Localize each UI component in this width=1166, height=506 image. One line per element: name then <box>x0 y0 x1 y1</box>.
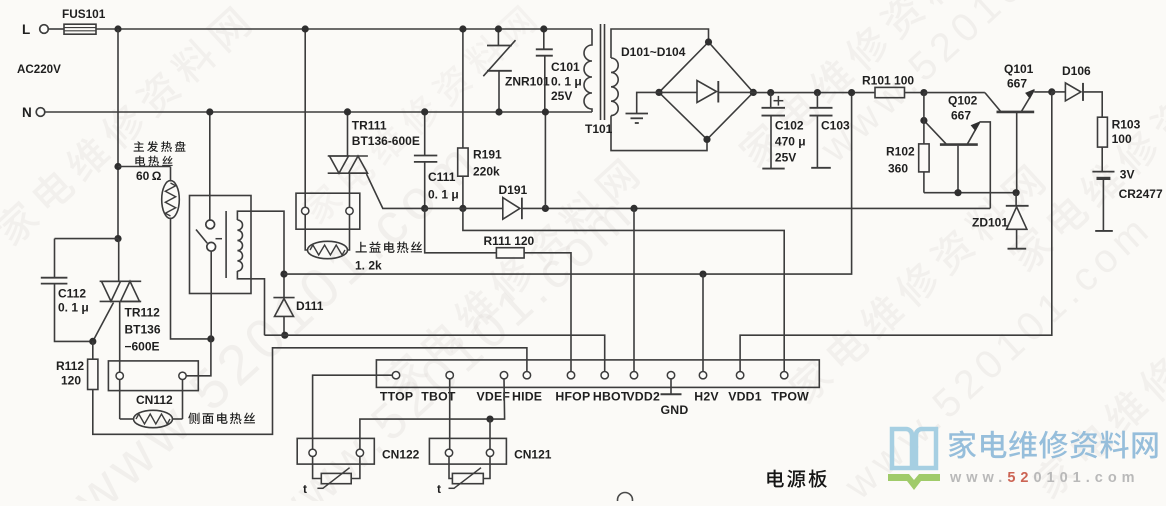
transistor Q101 <box>997 111 1035 114</box>
svg-text:www.520101.com: www.520101.com <box>949 470 1140 486</box>
fuse FUS101 <box>48 28 64 30</box>
node switch-heater junction <box>207 335 214 342</box>
svg-text:25V: 25V <box>551 89 572 103</box>
svg-text:t: t <box>303 482 307 496</box>
capacitor C111 <box>424 112 426 156</box>
bridge rectifier D101~D104 <box>659 42 753 139</box>
svg-text:FUS101: FUS101 <box>62 7 106 21</box>
wire R111 to HFOP <box>524 253 571 371</box>
svg-text:VDD1: VDD1 <box>728 390 762 404</box>
wire relay coil top lead <box>237 211 284 297</box>
wire TPOW <box>463 208 784 371</box>
svg-text:T101: T101 <box>585 122 613 136</box>
svg-text:120: 120 <box>61 374 81 388</box>
transformer T101 <box>584 29 592 112</box>
logo book icon <box>892 429 936 468</box>
capacitor C101 <box>543 29 545 49</box>
svg-text:TR111: TR111 <box>352 119 387 133</box>
svg-text:R102: R102 <box>886 145 915 159</box>
svg-text:470 μ: 470 μ <box>775 135 806 149</box>
wire L top rail <box>96 28 592 30</box>
svg-text:N: N <box>22 105 32 120</box>
label main heater 主发热盘 电热丝 60Ω <box>134 141 186 152</box>
wire DC+ to relay and H2V <box>284 93 852 275</box>
svg-text:TPOW: TPOW <box>771 390 809 404</box>
watermark <box>0 3 254 249</box>
svg-text:TTOP: TTOP <box>380 390 413 404</box>
svg-text:R112: R112 <box>56 359 84 373</box>
svg-text:C111: C111 <box>428 170 456 184</box>
svg-text:25V: 25V <box>775 151 796 165</box>
svg-text:D191: D191 <box>499 183 528 197</box>
svg-text:HIDE: HIDE <box>512 390 542 404</box>
svg-text:HFOP: HFOP <box>555 390 590 404</box>
node heater branch <box>114 163 121 170</box>
svg-text:ZNR101: ZNR101 <box>505 75 550 89</box>
wire D191 output (VDD2 line) <box>522 207 990 209</box>
TR111 gate wire <box>367 174 425 208</box>
node C102 <box>767 89 774 96</box>
svg-text:CN122: CN122 <box>382 448 420 462</box>
svg-text:C102: C102 <box>775 119 804 133</box>
svg-text:100: 100 <box>1112 132 1132 146</box>
svg-text:R111 120: R111 120 <box>484 234 535 248</box>
svg-text:BT136-600E: BT136-600E <box>352 134 420 148</box>
resistor R103 <box>1098 117 1108 147</box>
svg-text:C101: C101 <box>551 60 580 74</box>
svg-text:60 Ω: 60 Ω <box>136 169 162 183</box>
node DC+ drop <box>848 89 855 96</box>
svg-text:TBOT: TBOT <box>421 390 456 404</box>
resistor R112 <box>88 359 98 389</box>
diode D111 <box>273 297 294 299</box>
svg-text:GND: GND <box>661 403 689 417</box>
wire HBOT (coil drive) <box>265 335 605 371</box>
svg-text:BT136: BT136 <box>125 323 161 337</box>
wire VDD1 <box>740 92 1052 371</box>
svg-text:AC220V: AC220V <box>17 63 61 76</box>
connector strip <box>376 360 819 388</box>
svg-text:C103: C103 <box>821 119 850 133</box>
connector CN121 <box>429 438 506 464</box>
wire heater bottom to switch node <box>171 218 211 339</box>
svg-text:CN112: CN112 <box>136 393 173 407</box>
wire L vertical <box>117 29 119 239</box>
ground (bridge) <box>637 92 659 113</box>
svg-text:D101~D104: D101~D104 <box>621 45 686 59</box>
svg-text:Q101: Q101 <box>1004 62 1034 76</box>
svg-text:0. 1 μ: 0. 1 μ <box>428 188 459 202</box>
node Q102 base <box>954 189 961 196</box>
relay switch <box>209 112 211 220</box>
upper heater 上益电热丝 (oval) <box>305 215 307 250</box>
svg-text:CR2477: CR2477 <box>1119 187 1163 201</box>
triac TR112 <box>100 280 142 282</box>
svg-text:0. 1 μ: 0. 1 μ <box>551 75 582 89</box>
connector CN112 <box>108 361 198 391</box>
svg-text:−600E: −600E <box>125 340 160 354</box>
svg-text:360: 360 <box>888 162 908 176</box>
heater element main (oval with zigzag) <box>162 181 180 219</box>
node R191/D191/TPOW junction <box>459 205 466 212</box>
wire TBOT to CN121 <box>449 379 451 449</box>
resistor R101 <box>875 87 905 97</box>
upper heater connector box <box>296 193 360 229</box>
triac TR111 <box>328 155 368 157</box>
diode D191 <box>425 207 503 209</box>
terminal N <box>36 108 45 117</box>
wire heater top <box>118 166 171 168</box>
page mark (cut circle) <box>618 493 633 506</box>
wire L rail to upper-heater left pin <box>304 29 306 207</box>
node D111 anode on HBOT wire <box>281 332 288 339</box>
connector CN122 <box>297 438 374 464</box>
resistor R102 <box>919 144 929 172</box>
zener ZD101 <box>1015 193 1017 206</box>
svg-text:3V: 3V <box>1120 168 1135 182</box>
wire to R111 <box>425 208 497 252</box>
svg-text:VDD2: VDD2 <box>626 390 660 404</box>
node L-fuse junction <box>114 25 121 32</box>
ground GND pin <box>670 379 672 394</box>
terminal L <box>40 25 49 34</box>
node VDD2 riser <box>630 205 637 212</box>
svg-text:667: 667 <box>1007 77 1027 91</box>
node Q101 base / ZD101 <box>1013 189 1020 196</box>
svg-text:0. 1 μ: 0. 1 μ <box>58 301 89 315</box>
wire VDEF branch <box>360 379 505 449</box>
thermistor t (CN121) <box>449 457 452 479</box>
node R101 out <box>920 89 927 96</box>
svg-text:ZD101: ZD101 <box>972 216 1008 230</box>
resistor R191 <box>462 29 464 148</box>
capacitor C103 <box>816 93 818 108</box>
relay K101 box <box>190 196 252 294</box>
node TR112 gate / R112 / C112 <box>89 338 96 345</box>
node C112 branch <box>114 235 121 242</box>
svg-text:R101 100: R101 100 <box>862 74 914 88</box>
wire TTOP to CN122 <box>313 375 393 449</box>
node N riser on VDD2 line <box>542 205 549 212</box>
svg-text:HBOT: HBOT <box>593 390 629 404</box>
logo text 家电维修资料网 <box>949 430 1158 458</box>
capacitor C112 <box>54 239 56 278</box>
svg-text:VDEF: VDEF <box>477 390 511 404</box>
svg-text:220k: 220k <box>473 165 500 179</box>
label 电源板 <box>767 470 827 488</box>
wire base rail <box>924 192 1016 194</box>
battery 3V CR2477 <box>1092 171 1114 173</box>
TR112 gate wire <box>93 303 114 342</box>
svg-text:R103: R103 <box>1112 118 1141 132</box>
wire CN112 right pin to switch node <box>186 339 211 376</box>
node C103 <box>814 89 821 96</box>
svg-text:TR112: TR112 <box>125 306 161 320</box>
wire N rail <box>45 111 592 113</box>
diode D106 <box>1052 91 1066 93</box>
svg-text:t: t <box>437 482 441 496</box>
varistor ZNR101 <box>497 29 499 46</box>
wire R112 to HIDE <box>93 348 527 435</box>
resistor R111 120 <box>496 248 524 258</box>
thermistor t (CN122) <box>313 457 322 479</box>
svg-text:667: 667 <box>951 109 971 123</box>
svg-text:CN121: CN121 <box>514 448 552 462</box>
svg-text:L: L <box>22 22 30 37</box>
svg-text:Q102: Q102 <box>948 94 978 108</box>
side heater 侧面电热丝 (oval) <box>119 380 121 420</box>
wire H2V riser <box>702 274 704 371</box>
capacitor C102 (electrolytic) <box>770 93 772 108</box>
svg-text:H2V: H2V <box>694 390 719 404</box>
node Q101 emitter / D106 / VDD1 <box>1048 88 1055 95</box>
svg-text:C112: C112 <box>58 287 86 301</box>
node CN121 right riser <box>486 416 493 423</box>
wire relay coil bottom lead <box>237 271 264 335</box>
node gate/C111/R111 junction <box>421 205 428 212</box>
transistor Q102 <box>940 143 978 146</box>
svg-text:D111: D111 <box>296 299 324 313</box>
node Q102 collector <box>920 117 927 124</box>
wire DC rail <box>753 92 875 94</box>
wire D106 to R103 <box>1083 92 1102 117</box>
svg-text:1. 2k: 1. 2k <box>355 259 382 273</box>
svg-text:R191: R191 <box>473 148 502 162</box>
relay coil <box>225 211 227 278</box>
svg-text:D106: D106 <box>1062 64 1091 78</box>
node D111 cathode / DC+ wire <box>280 271 287 278</box>
node H2V riser <box>699 271 706 278</box>
